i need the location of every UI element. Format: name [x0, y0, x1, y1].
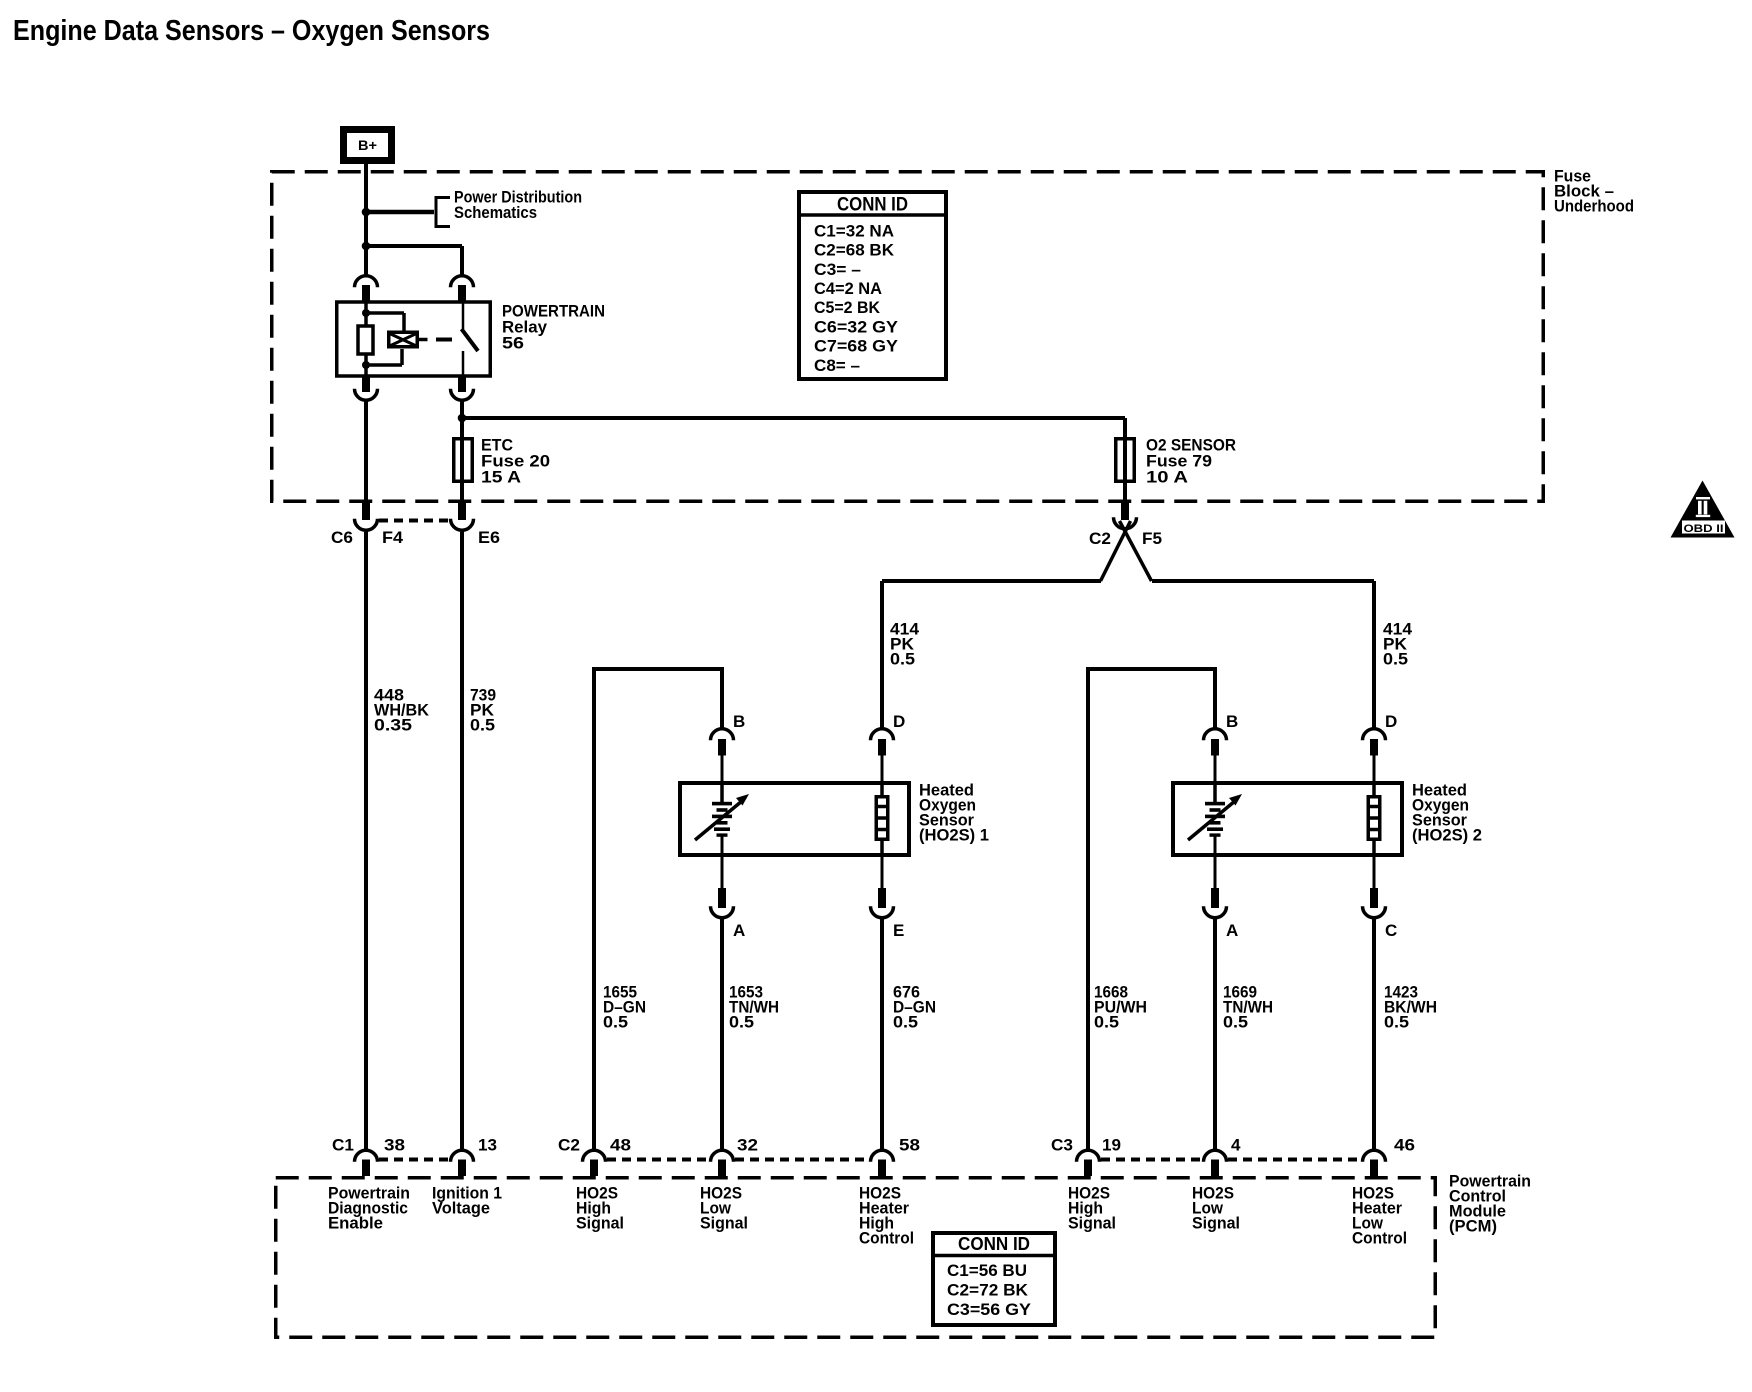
svg-text:46: 46 [1394, 1136, 1415, 1155]
svg-text:C5=2 BK: C5=2 BK [814, 299, 880, 317]
svg-text:D: D [893, 712, 905, 731]
svg-text:(HO2S) 2: (HO2S) 2 [1412, 825, 1482, 844]
svg-text:C6=32 GY: C6=32 GY [814, 318, 898, 336]
svg-text:CONN ID: CONN ID [958, 1234, 1030, 1254]
svg-text:OBD II: OBD II [1684, 523, 1724, 535]
svg-text:C4=2 NA: C4=2 NA [814, 280, 882, 298]
svg-text:B: B [733, 712, 745, 731]
svg-text:C3=56 GY: C3=56 GY [947, 1301, 1031, 1319]
svg-text:13: 13 [478, 1136, 497, 1155]
svg-text:C2=68 BK: C2=68 BK [814, 242, 894, 260]
svg-text:B+: B+ [358, 137, 377, 153]
svg-text:(PCM): (PCM) [1449, 1216, 1497, 1235]
svg-text:0.5: 0.5 [890, 649, 915, 668]
svg-text:0.5: 0.5 [603, 1012, 628, 1031]
svg-text:0.5: 0.5 [470, 715, 495, 734]
svg-text:D: D [1385, 712, 1397, 731]
svg-text:Control: Control [1352, 1228, 1407, 1247]
svg-text:E: E [893, 921, 904, 940]
svg-text:58: 58 [899, 1136, 920, 1155]
svg-text:0.5: 0.5 [729, 1012, 754, 1031]
svg-text:C8= –: C8= – [814, 357, 860, 375]
svg-text:10 A: 10 A [1146, 467, 1188, 486]
svg-text:Underhood: Underhood [1554, 196, 1634, 215]
svg-text:Control: Control [859, 1228, 914, 1247]
svg-text:Engine Data Sensors – Oxygen S: Engine Data Sensors – Oxygen Sensors [13, 15, 490, 47]
svg-text:B: B [1226, 712, 1238, 731]
svg-text:32: 32 [737, 1136, 758, 1155]
svg-text:0.5: 0.5 [1383, 649, 1408, 668]
svg-text:C7=68 GY: C7=68 GY [814, 338, 898, 356]
svg-text:C2: C2 [1089, 529, 1111, 548]
svg-text:C1=56 BU: C1=56 BU [947, 1262, 1027, 1280]
svg-text:56: 56 [502, 333, 524, 352]
svg-text:0.35: 0.35 [374, 715, 412, 734]
svg-text:Signal: Signal [576, 1213, 624, 1232]
svg-text:15 A: 15 A [481, 467, 521, 486]
svg-text:C2=72 BK: C2=72 BK [947, 1281, 1028, 1299]
svg-text:Voltage: Voltage [432, 1198, 490, 1217]
svg-text:C1: C1 [332, 1136, 354, 1155]
svg-text:Signal: Signal [1068, 1213, 1116, 1232]
svg-text:C3: C3 [1051, 1136, 1073, 1155]
svg-text:CONN ID: CONN ID [837, 195, 908, 216]
svg-text:Enable: Enable [328, 1213, 383, 1232]
svg-text:C3= –: C3= – [814, 261, 861, 279]
svg-text:C: C [1385, 921, 1397, 940]
svg-text:38: 38 [384, 1136, 405, 1155]
svg-text:C1=32 NA: C1=32 NA [814, 222, 894, 240]
svg-text:0.5: 0.5 [893, 1012, 918, 1031]
svg-text:C6: C6 [331, 528, 353, 547]
svg-text:A: A [1226, 921, 1238, 940]
svg-text:(HO2S) 1: (HO2S) 1 [919, 825, 989, 844]
svg-text:Signal: Signal [700, 1213, 748, 1232]
svg-text:19: 19 [1102, 1136, 1121, 1155]
svg-text:0.5: 0.5 [1223, 1012, 1248, 1031]
svg-text:F4: F4 [382, 528, 404, 547]
svg-text:Schematics: Schematics [454, 203, 537, 222]
svg-text:F5: F5 [1142, 529, 1162, 548]
svg-text:4: 4 [1231, 1136, 1241, 1155]
svg-text:Signal: Signal [1192, 1213, 1240, 1232]
svg-text:48: 48 [610, 1136, 631, 1155]
svg-text:0.5: 0.5 [1384, 1012, 1409, 1031]
svg-text:0.5: 0.5 [1094, 1012, 1119, 1031]
svg-text:E6: E6 [478, 528, 500, 547]
svg-text:A: A [733, 921, 745, 940]
svg-text:C2: C2 [558, 1136, 580, 1155]
